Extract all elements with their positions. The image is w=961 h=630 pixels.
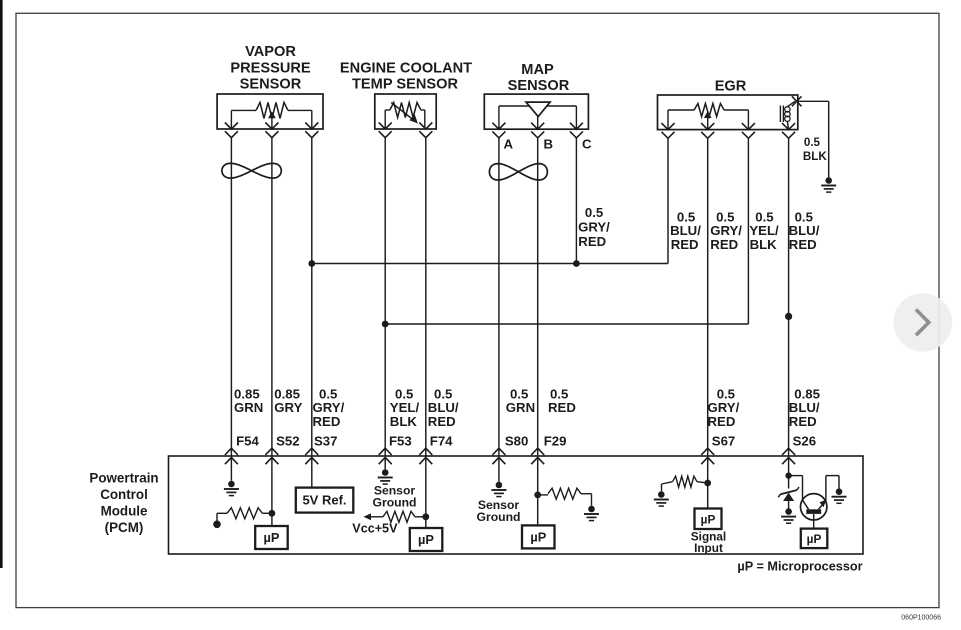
- svg-text:GRN: GRN: [234, 400, 263, 415]
- svg-text:RED: RED: [710, 237, 738, 252]
- junction F53 rail: [382, 321, 389, 328]
- wire emitter to ground: [826, 476, 839, 501]
- svg-text:0.5: 0.5: [755, 209, 773, 224]
- sensor ground label 1: [372, 484, 416, 510]
- wire S52: [271, 138, 273, 456]
- engine coolant temp sensor title: [340, 60, 472, 92]
- wire F54 internal: [230, 458, 232, 481]
- svg-text:BLU/: BLU/: [670, 223, 701, 238]
- egr corner exit arrow: [792, 96, 802, 106]
- junction S52 R1: [269, 510, 276, 517]
- ground G7 zener: [781, 508, 796, 523]
- map terminal A: [492, 123, 505, 138]
- ECT terminal 2: [419, 123, 432, 138]
- egr box: [658, 95, 798, 130]
- wire S26 internal: [788, 458, 790, 489]
- junction S67 R4: [704, 480, 711, 487]
- svg-text:C: C: [582, 137, 592, 152]
- ground G2 f54: [224, 481, 239, 496]
- svg-text:Control: Control: [100, 487, 148, 502]
- svg-text:0.5: 0.5: [677, 209, 695, 224]
- PCM connector F54: [225, 448, 238, 464]
- svg-text:RED: RED: [313, 414, 341, 429]
- svg-text:0.5: 0.5: [717, 386, 735, 401]
- svg-text:Ground: Ground: [372, 496, 416, 510]
- svg-text:µP: µP: [807, 532, 822, 546]
- pin S26: [793, 433, 816, 448]
- egr terminal 1: [662, 123, 675, 138]
- svg-text:S26: S26: [793, 433, 816, 448]
- svg-text:0.5: 0.5: [716, 209, 734, 224]
- svg-text:F74: F74: [430, 433, 453, 448]
- label 0.85 BLU/RED s26: [789, 386, 820, 429]
- map pin label B: [544, 137, 554, 152]
- microprocessor U5: [801, 529, 828, 549]
- microprocessor U2: [410, 528, 443, 551]
- label 0.5 BLU/RED egr4: [789, 209, 820, 252]
- svg-text:S67: S67: [712, 433, 735, 448]
- svg-text:RED: RED: [548, 400, 576, 415]
- svg-text:Powertrain: Powertrain: [89, 470, 158, 485]
- PCM connector S52: [265, 448, 278, 464]
- label 0.5 BLK: [803, 136, 827, 163]
- splice dot S26: [785, 313, 792, 320]
- map terminal C: [570, 123, 583, 138]
- label 0.5 BLU/RED f74: [428, 386, 459, 429]
- vcc label: [352, 522, 398, 536]
- map sensor box: [484, 94, 588, 129]
- pin F54: [236, 433, 259, 448]
- svg-text:(PCM): (PCM): [105, 520, 144, 535]
- wire egr coil to ground: [797, 101, 829, 177]
- label 0.5 YEL/BLK egr3: [749, 209, 779, 252]
- microprocessor U1: [255, 526, 288, 549]
- svg-text:µP: µP: [530, 530, 546, 545]
- pin F29: [544, 433, 567, 448]
- wire S80: [498, 138, 500, 456]
- vapor terminal 3: [305, 123, 318, 138]
- potentiometer in egr: [668, 104, 748, 130]
- svg-text:BLK: BLK: [803, 150, 827, 163]
- svg-text:BLU/: BLU/: [789, 223, 820, 238]
- svg-text:BLK: BLK: [750, 237, 778, 252]
- zener diode D1: [778, 487, 799, 508]
- sensor ground rail: [385, 323, 748, 325]
- PCM connector S26: [782, 448, 795, 464]
- PCM connector F29: [531, 448, 544, 464]
- svg-text:µP: µP: [418, 532, 434, 547]
- svg-text:µP: µP: [701, 512, 716, 526]
- label 0.5 RED f29: [548, 386, 576, 415]
- egr terminal 2: [701, 123, 714, 138]
- svg-text:VAPOR: VAPOR: [245, 44, 296, 60]
- svg-text:GRY/: GRY/: [313, 400, 345, 415]
- svg-text:TEMP SENSOR: TEMP SENSOR: [352, 77, 458, 93]
- junction S37 rail: [308, 260, 315, 267]
- engine coolant temp sensor box: [375, 94, 436, 129]
- svg-text:0.5: 0.5: [510, 386, 528, 401]
- svg-text:SENSOR: SENSOR: [240, 77, 302, 93]
- svg-text:ENGINE COOLANT: ENGINE COOLANT: [340, 60, 472, 76]
- vapor pressure sensor title: [230, 44, 311, 93]
- junction F74 R2: [422, 513, 429, 520]
- wire F29 internal: [537, 458, 539, 526]
- scan edge strip: [0, 0, 3, 568]
- svg-text:GRY/: GRY/: [708, 400, 740, 415]
- svg-text:Input: Input: [694, 541, 723, 555]
- svg-text:0.5: 0.5: [585, 205, 603, 220]
- wire MAP C branch: [575, 138, 577, 264]
- label 0.5 GRY/RED s67: [708, 386, 740, 429]
- label 0.5 GRN s80: [506, 386, 535, 415]
- wire S52 internal: [271, 458, 273, 527]
- wire S37 internal: [311, 458, 313, 488]
- ground G8 emitter: [832, 488, 847, 503]
- svg-text:BLU/: BLU/: [789, 400, 820, 415]
- pin S37: [314, 433, 337, 448]
- svg-text:GRY: GRY: [274, 400, 302, 415]
- potentiometer in vapor sensor: [231, 102, 311, 129]
- svg-text:F29: F29: [544, 433, 567, 448]
- egr title: [715, 79, 747, 95]
- svg-text:YEL/: YEL/: [749, 223, 779, 238]
- wire S37: [311, 138, 313, 456]
- pin S52: [276, 433, 299, 448]
- map terminal B: [531, 123, 544, 138]
- 5V Ref box: [296, 488, 354, 513]
- map sensor transducer triangle: [526, 102, 550, 116]
- svg-text:YEL/: YEL/: [390, 400, 420, 415]
- wire F74: [425, 138, 427, 456]
- ECT terminal 1: [379, 123, 392, 138]
- transistor Q1: [801, 494, 827, 529]
- svg-text:0.85: 0.85: [234, 386, 260, 401]
- microprocessor U4: [695, 509, 722, 530]
- twisted pair map: [489, 164, 547, 180]
- twisted pair vapor: [222, 163, 281, 178]
- vapor terminal 2: [265, 123, 278, 138]
- svg-text:0.85: 0.85: [794, 386, 820, 401]
- map pin label A: [504, 137, 514, 152]
- junction F29 R3: [534, 492, 541, 499]
- ground G3 sensor ground: [378, 469, 393, 484]
- egr wiper arrow: [704, 111, 712, 130]
- svg-text:GRN: GRN: [506, 400, 535, 415]
- svg-text:Ground: Ground: [476, 510, 520, 524]
- svg-text:0.5: 0.5: [795, 209, 813, 224]
- pin F74: [430, 433, 453, 448]
- ground G6 s67: [654, 491, 669, 506]
- junction S26: [785, 472, 791, 478]
- carousel next button: [894, 293, 953, 352]
- svg-text:Vcc+5V: Vcc+5V: [352, 522, 398, 536]
- wire S67: [707, 138, 709, 456]
- svg-text:0.5: 0.5: [395, 386, 413, 401]
- vapor pressure sensor box: [217, 94, 323, 129]
- label 0.5 GRY/RED s37: [313, 386, 345, 429]
- resistor R1 pullup: [217, 508, 272, 522]
- 5V reference rail: [312, 263, 668, 265]
- svg-text:S52: S52: [276, 433, 299, 448]
- resistor R3 pulldown: [538, 488, 592, 506]
- vcc resistor R2: [363, 511, 425, 522]
- resistor R4 s67: [662, 476, 708, 491]
- egr solenoid coil: [780, 101, 795, 129]
- svg-text:µP: µP: [264, 530, 280, 545]
- svg-text:EGR: EGR: [715, 79, 747, 95]
- svg-text:B: B: [544, 137, 554, 152]
- ground G5 f29: [584, 506, 599, 521]
- pin F53: [389, 433, 412, 448]
- svg-text:PRESSURE: PRESSURE: [230, 60, 311, 76]
- map pin label C: [582, 137, 592, 152]
- wire S67 internal: [707, 458, 709, 509]
- svg-text:0.5: 0.5: [319, 386, 337, 401]
- pin S67: [712, 433, 735, 448]
- wire S26 to transistor: [789, 476, 803, 500]
- microprocessor note: [737, 560, 862, 574]
- signal input label: [691, 530, 726, 556]
- svg-text:RED: RED: [578, 234, 606, 249]
- PCM connector S37: [305, 448, 318, 464]
- PCM connector S67: [701, 448, 714, 464]
- sensor ground label 2: [476, 498, 520, 524]
- wire S80 internal: [498, 458, 500, 482]
- svg-text:RED: RED: [708, 414, 736, 429]
- junction MAP C rail: [573, 260, 580, 267]
- svg-text:RED: RED: [789, 414, 817, 429]
- wire EGR T1 branch: [667, 138, 669, 264]
- svg-text:MAP: MAP: [521, 62, 554, 78]
- pin S80: [505, 433, 528, 448]
- map sensor title: [508, 62, 570, 94]
- svg-text:F53: F53: [389, 433, 412, 448]
- PCM connector F74: [419, 448, 432, 464]
- svg-text:RED: RED: [428, 414, 456, 429]
- svg-text:F54: F54: [236, 433, 259, 448]
- microprocessor U3: [522, 525, 555, 548]
- wire F74 internal: [425, 458, 427, 529]
- vapor terminal 1: [225, 123, 238, 138]
- label 0.5 GRY/RED egr2: [710, 209, 742, 252]
- svg-text:BLK: BLK: [390, 414, 418, 429]
- PCM connector F53: [379, 448, 392, 464]
- svg-text:060P100066: 060P100066: [901, 615, 941, 622]
- svg-text:5V Ref.: 5V Ref.: [302, 493, 346, 508]
- svg-text:S80: S80: [505, 433, 528, 448]
- svg-text:A: A: [504, 137, 514, 152]
- svg-text:Module: Module: [101, 503, 148, 518]
- PCM label: [89, 470, 158, 535]
- wire F53: [384, 138, 386, 456]
- map sensor internal wiring: [499, 106, 577, 129]
- PCM box: [169, 456, 864, 554]
- thermistor in ECT sensor: [385, 103, 425, 130]
- document code: [901, 615, 941, 622]
- ground G4 s80: [491, 482, 506, 497]
- svg-text:BLU/: BLU/: [428, 400, 459, 415]
- wire EGR T3 branch: [747, 138, 749, 324]
- wire F54: [230, 138, 232, 456]
- ground G1 egr vent: [821, 177, 836, 192]
- wire S26: [788, 138, 790, 456]
- wire F53 internal: [384, 458, 386, 470]
- terminal dot R1: [213, 521, 221, 529]
- label 0.5 GRY/RED map-c: [578, 205, 610, 249]
- svg-text:GRY/: GRY/: [578, 220, 610, 235]
- svg-text:RED: RED: [789, 237, 817, 252]
- label 0.85 GRY: [274, 386, 302, 415]
- svg-text:S37: S37: [314, 433, 337, 448]
- svg-text:RED: RED: [671, 237, 699, 252]
- svg-text:0.85: 0.85: [274, 386, 300, 401]
- svg-text:0.5: 0.5: [550, 386, 568, 401]
- svg-text:0.5: 0.5: [804, 136, 821, 149]
- label 0.85 GRN: [234, 386, 263, 415]
- svg-text:SENSOR: SENSOR: [508, 78, 570, 94]
- label 0.5 YEL/BLK f53: [390, 386, 420, 429]
- label 0.5 BLU/RED egr1: [670, 209, 701, 252]
- svg-text:0.5: 0.5: [434, 386, 452, 401]
- wire F29: [537, 138, 539, 456]
- vapor sensor wiper arrow: [268, 111, 276, 129]
- svg-text:µP = Microprocessor: µP = Microprocessor: [737, 560, 862, 574]
- egr terminal 3: [742, 123, 755, 138]
- PCM connector S80: [492, 448, 505, 464]
- egr terminal 4: [782, 123, 795, 138]
- svg-text:GRY/: GRY/: [710, 223, 742, 238]
